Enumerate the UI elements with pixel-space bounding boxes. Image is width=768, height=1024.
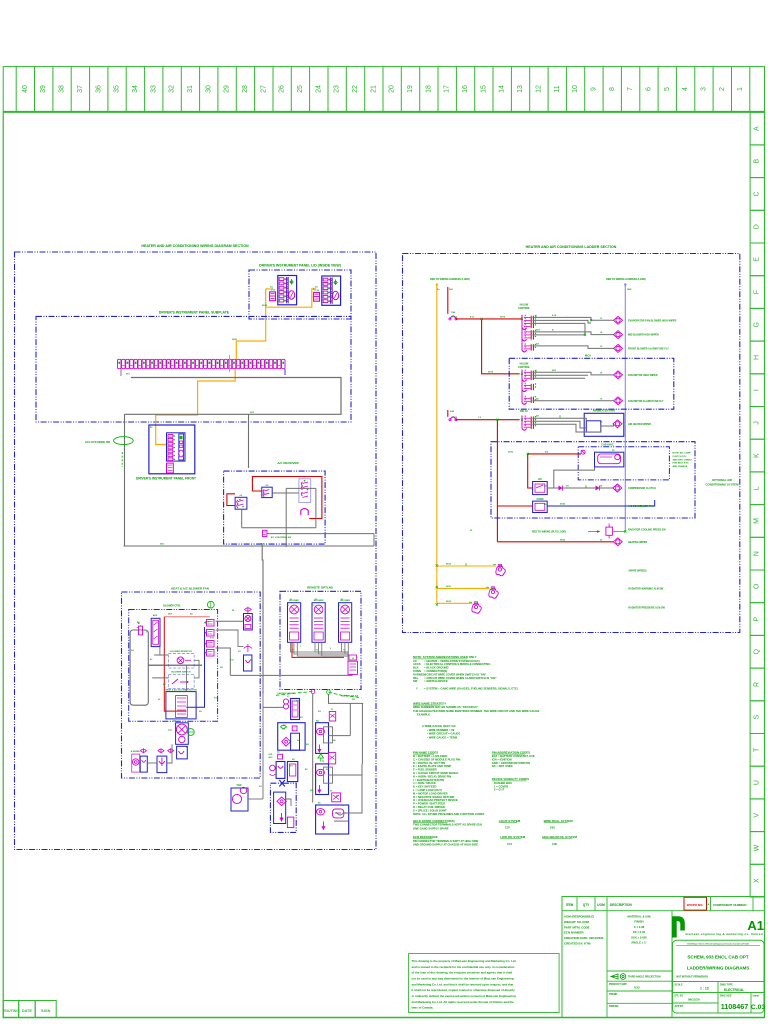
svg-text:P: P <box>754 616 761 621</box>
title block outer <box>562 897 765 1018</box>
svg-text:• WIRE GAUGE = TERM: • WIRE GAUGE = TERM <box>427 735 458 739</box>
relay box RA <box>316 723 329 754</box>
svg-text:RADIATOR COOLING PRESS SW: RADIATOR COOLING PRESS SW <box>628 529 666 532</box>
svg-text:= CIRCUIT WIRE COVER WHEN ALA: = CIRCUIT WIRE COVER WHEN ALARM SWITCH I… <box>424 676 497 680</box>
connector J2 front panel block <box>167 433 186 461</box>
wire: vertical trunks <box>248 546 250 560</box>
svg-text:CAB HVAC: CAB HVAC <box>601 444 614 447</box>
breaker CB2 <box>450 417 456 420</box>
svg-text:09/24: 09/24 <box>560 503 566 506</box>
svg-text:G: G <box>754 322 761 327</box>
svg-text:AIR HEATER WIPER: AIR HEATER WIPER <box>628 423 651 426</box>
svg-text:= CONNECTOR(S): = CONNECTOR(S) <box>424 669 447 673</box>
svg-text:SCALE: SCALE <box>675 983 684 986</box>
wire: red receiver loop <box>252 477 322 519</box>
connector CX2 <box>329 753 336 764</box>
cab HVAC sub box <box>578 447 669 480</box>
svg-text:10: 10 <box>572 85 579 93</box>
svg-text:AUX: AUX <box>153 614 158 617</box>
heater blower assembly outer box <box>122 592 261 778</box>
svg-text:AND GROUND SUPPLY AT CHASSIS A: AND GROUND SUPPLY AT CHASSIS AT HIGH SID… <box>413 843 478 847</box>
right column: connector CX1 <box>329 712 335 722</box>
svg-text:C: C <box>754 191 761 196</box>
wire: relay common bar <box>521 319 523 346</box>
ruler numbers 40..1 <box>22 85 744 93</box>
svg-text:R: R <box>754 682 761 687</box>
wire: grey jog to relay2 <box>578 478 580 488</box>
svg-text:DEVICE VISIBILITY CODES: DEVICE VISIBILITY CODES <box>492 777 529 781</box>
relay RL3 <box>521 343 523 350</box>
svg-text:LADDER/WIRING DIAGRAMS: LADDER/WIRING DIAGRAMS <box>687 966 750 971</box>
svg-text:CREATED BY: KTM: CREATED BY: KTM <box>564 942 591 946</box>
svg-text:FINISH: FINISH <box>634 920 643 924</box>
svg-text:and Marketing Co. Ltd. All: and Marketing Co. Ltd. All rights reserv… <box>412 1000 515 1004</box>
wire: red remote feed <box>292 642 344 657</box>
svg-text:09/17: 09/17 <box>452 317 458 319</box>
svg-text:SEE DWG 1108467: SEE DWG 1108467 <box>673 458 693 461</box>
title block left info column <box>606 911 608 1018</box>
svg-text:F: F <box>754 290 761 294</box>
svg-text:0/2: 0/2 <box>300 717 303 719</box>
wire: orange harness in lid box <box>266 288 271 290</box>
svg-text:30: 30 <box>205 85 212 93</box>
svg-text:3: 3 <box>701 87 708 91</box>
svg-text:FAN: FAN <box>237 784 242 787</box>
wire: red rung feed 1 <box>456 318 522 320</box>
wire: red heater bottom rung <box>497 541 613 543</box>
svg-text:31: 31 <box>187 85 194 93</box>
svg-text:WIRE NUMBERS MAY BE SHOWN AS ": WIRE NUMBERS MAY BE SHOWN AS "XXX/XX/XX" <box>413 705 479 709</box>
aux fan component AF1 <box>244 614 253 631</box>
relay K1 <box>235 497 247 509</box>
svg-text:09/32: 09/32 <box>446 601 452 603</box>
svg-text:11: 11 <box>554 85 561 92</box>
relay K3 tall <box>151 618 160 646</box>
svg-text:RELAY: RELAY <box>520 410 528 413</box>
spare connector SP2 <box>489 588 498 598</box>
svg-text:K: K <box>754 453 761 458</box>
svg-text:09/22: 09/22 <box>508 451 514 453</box>
svg-text:HEATER AND AIR CONDITIONING LA: HEATER AND AIR CONDITIONING LADDER SECTI… <box>526 245 617 249</box>
motor M12 <box>614 344 623 352</box>
svg-text:22: 22 <box>352 85 359 93</box>
svg-text:FRONT BLOWER ALARM FUSE FLY: FRONT BLOWER ALARM FUSE FLY <box>628 347 669 350</box>
fan unit FU1 <box>288 603 301 643</box>
svg-text:DTL BY: DTL BY <box>675 994 684 997</box>
svg-text:PRODUCT GRP: PRODUCT GRP <box>609 983 627 986</box>
svg-text:= HEATER – VENTILATION SYSTEM: = HEATER – VENTILATION SYSTEM (HVAC) <box>424 659 480 663</box>
terminal strip TB1 <box>118 359 122 368</box>
wire: rung group2 <box>532 372 613 375</box>
svg-text:TYP: TYP <box>168 730 173 732</box>
twin circle glyph <box>283 699 288 704</box>
horn H1 <box>132 754 140 772</box>
svg-text:A2: A2 <box>544 485 546 488</box>
svg-text:B = BATTERY + LIVE FEED: B = BATTERY + LIVE FEED <box>413 754 447 758</box>
svg-text:REL: REL <box>413 676 419 680</box>
svg-text:RED TO WIRING HARNESS (LADD): RED TO WIRING HARNESS (LADD) <box>606 278 646 281</box>
svg-text:L: L <box>754 486 761 490</box>
svg-text:DWG TYPE: DWG TYPE <box>720 983 733 986</box>
svg-text:W: W <box>754 844 761 851</box>
svg-text:DRIVER'S INSTRUMENT PANEL LID: DRIVER'S INSTRUMENT PANEL LID (INSIDE VI… <box>259 264 341 268</box>
svg-text:20: 20 <box>389 85 396 93</box>
wire: red feed loop <box>164 616 210 618</box>
relay RL4 <box>521 370 523 380</box>
svg-text:E30: E30 <box>550 826 555 830</box>
svg-text:MATERIAL & U/M: MATERIAL & U/M <box>628 915 652 919</box>
title block tolerance column <box>671 911 673 1018</box>
WO/PO NO red cell <box>684 897 707 910</box>
svg-text:ECN REFERENCE: ECN REFERENCE <box>413 835 438 839</box>
svg-text:This drawing is the proper: This drawing is the property of MacLean … <box>412 959 517 963</box>
wire: red compressor feed <box>528 453 581 455</box>
svg-text:COMPONENT NUMBER: COMPONENT NUMBER <box>713 903 747 907</box>
svg-text:33: 33 <box>150 85 157 93</box>
wire: green tick at strip <box>229 355 231 372</box>
svg-text:09/40: 09/40 <box>262 304 268 307</box>
wire: light blue return vertical <box>624 283 626 532</box>
bottom dashed box DL1 <box>270 783 296 832</box>
svg-text:SIGN: SIGN <box>41 1009 51 1013</box>
motor M15 <box>613 420 622 428</box>
relay RL6 <box>521 396 523 403</box>
border frame: left edge <box>2 112 4 1017</box>
fan unit FU2 <box>312 603 325 643</box>
relay RL1 <box>521 315 523 328</box>
svg-text:ACCS: ACCS <box>413 662 421 666</box>
driver's instrument panel front box <box>149 425 195 474</box>
svg-text:NOTE: A/C COMP: NOTE: A/C COMP <box>673 452 692 455</box>
svg-text:CAB DIST SPLICE: CAB DIST SPLICE <box>341 695 359 698</box>
svg-text:09/11/20: 09/11/20 <box>688 998 700 1002</box>
svg-text:RED TO WIRING (PLTS LADD): RED TO WIRING (PLTS LADD) <box>532 531 566 534</box>
motor M17: heating <box>613 538 622 546</box>
svg-text:U33: U33 <box>634 986 640 990</box>
svg-text:14: 14 <box>499 85 506 93</box>
condensate pump M2 <box>177 746 188 759</box>
svg-text:K = KEY SW FEED: K = KEY SW FEED <box>413 785 437 789</box>
wire tick <box>271 288 273 290</box>
relay RL7 <box>521 416 523 429</box>
svg-text:15A: 15A <box>451 311 455 314</box>
compressor arc glyph <box>301 509 308 516</box>
svg-text:0/7: 0/7 <box>597 411 600 413</box>
svg-text:1500 Major Street, R.R.#2 Coll: 1500 Major Street, R.R.#2 Collingwood On… <box>687 942 749 945</box>
svg-text:not be used in any way d: not be used in any way detrimental to th… <box>412 976 514 980</box>
svg-text:GND: GND <box>627 289 632 291</box>
svg-text:12: 12 <box>535 85 542 93</box>
module box ML2 <box>278 723 305 751</box>
svg-text:• WIRE NUMBER = 09: • WIRE NUMBER = 09 <box>427 728 455 732</box>
svg-text:6: 6 <box>646 87 653 91</box>
svg-text:T2: T2 <box>322 761 324 763</box>
wiring diagram section outer box <box>15 252 377 850</box>
svg-text:SW: SW <box>413 679 418 683</box>
svg-text:09/20: 09/20 <box>452 417 458 419</box>
svg-text:BLOWER CTRL: BLOWER CTRL <box>163 605 181 608</box>
svg-text:CREATION DATE: 09/11/2020: CREATION DATE: 09/11/2020 <box>564 936 604 940</box>
breaker CB1 <box>450 316 456 319</box>
svg-text:9: 9 <box>590 87 597 91</box>
disclaimer text box <box>409 954 559 1013</box>
svg-text:8: 8 <box>609 87 616 91</box>
svg-text:20A: 20A <box>450 410 454 413</box>
svg-text:HELD SPARE CONNECTOR(S): HELD SPARE CONNECTOR(S) <box>413 819 455 823</box>
svg-text:2 = CUT: 2 = CUT <box>494 788 504 792</box>
svg-text:5: 5 <box>664 87 671 91</box>
relay RL5 <box>521 383 523 390</box>
product grp row <box>607 980 672 982</box>
svg-text:GND = GROUND RETURN PIN: GND = GROUND RETURN PIN <box>492 761 530 765</box>
svg-text:PIN NAME CODES: PIN NAME CODES <box>413 750 438 754</box>
svg-text:WIRE DUAL SYSTEM: WIRE DUAL SYSTEM <box>544 819 574 823</box>
wire: red relay feed low <box>497 505 532 507</box>
svg-text:ITEM: ITEM <box>566 903 574 907</box>
svg-text:= CIRCUIT WIRE COVER WHEN SWI: = CIRCUIT WIRE COVER WHEN SWITCH IS "ON" <box>424 672 487 676</box>
svg-text:P1: P1 <box>186 747 188 749</box>
svg-text:and Marketing Co. Ltd. and: and Marketing Co. Ltd. and that it shall… <box>412 982 514 986</box>
svg-text:EXAMPLE: EXAMPLE <box>417 713 430 717</box>
svg-text:X3: X3 <box>330 791 332 793</box>
svg-text:X1: X1 <box>331 709 333 711</box>
relay RL2 <box>521 329 523 339</box>
svg-text:• WIRE CIRCUIT = GAUGE: • WIRE CIRCUIT = GAUGE <box>427 732 460 736</box>
svg-text:XX ± 0.05: XX ± 0.05 <box>633 930 646 934</box>
air heater unit box <box>584 413 624 436</box>
wire: grey fan bundle 3 <box>342 642 349 652</box>
svg-text:25: 25 <box>297 85 304 93</box>
switch S1: acc heater mode switch ellipse <box>114 437 134 445</box>
svg-text:J1: J1 <box>287 696 289 698</box>
svg-text:APP BY: APP BY <box>675 1005 684 1008</box>
aux pump component AF2 <box>244 644 252 652</box>
svg-text:WIRE NAME STRATEGY: WIRE NAME STRATEGY <box>413 701 446 705</box>
svg-text:0/9: 0/9 <box>341 805 344 807</box>
svg-text:H = HORN / RELAY DRIVE PIN: H = HORN / RELAY DRIVE PIN <box>413 774 451 778</box>
svg-text:0/6: 0/6 <box>163 684 166 686</box>
wire: orange spare 3 <box>437 602 473 604</box>
box BL3 <box>276 762 285 779</box>
svg-text:XXX ± 0.005: XXX ± 0.005 <box>631 935 647 939</box>
connector sq CQ1 <box>278 754 283 759</box>
ground symbol G1 <box>187 729 194 736</box>
wire: green dashed distribution <box>276 692 313 696</box>
relay box RB <box>316 764 329 795</box>
svg-text:21: 21 <box>370 85 377 93</box>
svg-text:N = NEGATIVE SIGNAL RETURN: N = NEGATIVE SIGNAL RETURN <box>413 795 454 799</box>
border frame: ruler bottom heavy line <box>3 111 764 113</box>
svg-text:CAB DIST SPLICE: CAB DIST SPLICE <box>277 692 295 695</box>
svg-text:15: 15 <box>480 85 487 93</box>
svg-text:NOT WITHOUT PERMISSION: NOT WITHOUT PERMISSION <box>677 977 709 979</box>
svg-text:09/31: 09/31 <box>446 586 452 588</box>
driver's instrument panel lid (inside view) box <box>249 270 351 319</box>
wire: compressor clutch rung <box>547 487 613 489</box>
wire: orange supply vertical <box>436 283 438 603</box>
wire: right mesh <box>329 735 351 737</box>
svg-text:F2: F2 <box>315 599 317 601</box>
svg-text:T: T <box>754 747 761 752</box>
svg-text:of the loan of this drawi: of the loan of this drawing, the recipie… <box>412 971 513 975</box>
svg-text:A WIRE GAUGE 09/17/ 0 B:: A WIRE GAUGE 09/17/ 0 B: <box>422 724 456 728</box>
svg-text:X ± 0.08: X ± 0.08 <box>634 925 645 929</box>
svg-text:A/C: A/C <box>538 478 542 481</box>
svg-text:O: O <box>754 583 761 589</box>
svg-text:maclean engineering & marke: maclean engineering & marketing co. limi… <box>686 932 763 936</box>
svg-text:40: 40 <box>22 85 29 93</box>
scale row <box>673 981 765 983</box>
svg-text:NC = NOT USED: NC = NOT USED <box>492 764 513 768</box>
MCU sub box <box>509 358 674 409</box>
routing/date/sign boxes bottom-left <box>3 1001 19 1018</box>
driver's instrument panel subplate box <box>36 316 351 422</box>
arrow orange feed <box>435 284 438 288</box>
svg-text:DRIVER'S INSTRUMENT PANEL FRON: DRIVER'S INSTRUMENT PANEL FRONT <box>136 477 196 481</box>
svg-text:J: J <box>754 421 761 425</box>
svg-text:NOTE: ALL OTHER PIN NAMES ARE: NOTE: ALL OTHER PIN NAMES ARE FUNCTION C… <box>413 812 484 816</box>
svg-text:or indirectly without the: or indirectly without the expressed writ… <box>412 994 516 998</box>
svg-text:HIGH BEAM OIL SYSTEM: HIGH BEAM OIL SYSTEM <box>542 835 577 839</box>
blower connector block J5 <box>166 692 196 719</box>
svg-text:0/5: 0/5 <box>292 759 295 761</box>
border frame: bottom edge <box>3 1017 765 1019</box>
ground glyph G2 <box>207 601 214 608</box>
wire: orange spare 2 <box>437 587 490 589</box>
wire: rung group1 <box>532 317 613 320</box>
svg-text:TWO CONNECTOR TERMINALS KEPT A: TWO CONNECTOR TERMINALS KEPT AS SPARE (E… <box>413 823 482 827</box>
svg-text:09/41: 09/41 <box>232 338 238 341</box>
connector block CB-L1 <box>291 699 300 720</box>
svg-text:I = IGNITION KEYED PIN: I = IGNITION KEYED PIN <box>413 778 444 782</box>
svg-text:BLK: BLK <box>413 666 419 670</box>
fan bow glyphs above horns <box>140 749 146 752</box>
svg-text:F5: F5 <box>470 530 472 532</box>
svg-text:35: 35 <box>114 85 121 93</box>
svg-text:37: 37 <box>77 85 84 93</box>
svg-text:SHEET: SHEET <box>753 995 761 997</box>
fan bow glyph <box>245 608 252 611</box>
svg-text:C74: C74 <box>507 842 512 846</box>
svg-text:DATE: DATE <box>22 1009 33 1013</box>
pressure switch PS1 <box>581 450 585 454</box>
svg-text:A: A <box>754 126 761 131</box>
svg-text:= BLACK GROUND: = BLACK GROUND <box>424 666 448 670</box>
svg-text:RED TO WIRING HARNESS (LADD): RED TO WIRING HARNESS (LADD) <box>430 278 470 281</box>
svg-text:HEATER AND AIR CONDITIONING WI: HEATER AND AIR CONDITIONING WIRING DIAGR… <box>141 244 249 248</box>
svg-text:24: 24 <box>315 85 322 93</box>
svg-text:R = RELAY COIL DRIVER: R = RELAY COIL DRIVER <box>413 805 445 809</box>
svg-text:AC: AC <box>413 659 417 663</box>
svg-text:U: U <box>754 780 761 785</box>
svg-text:30A: 30A <box>449 288 453 291</box>
svg-text:DWG SIZE: DWG SIZE <box>720 995 732 997</box>
wire: green switch lead <box>121 452 123 467</box>
svg-text:F1: F1 <box>290 599 292 601</box>
connector cluster P2 <box>322 276 341 305</box>
maclean logo <box>672 916 685 937</box>
svg-text:36: 36 <box>95 85 102 93</box>
svg-text:B3: B3 <box>305 769 307 771</box>
svg-text:A1: A1 <box>150 658 152 661</box>
svg-text:C57: C57 <box>505 826 510 830</box>
ladder section outer box <box>403 254 740 633</box>
svg-text:IGN = IGNITION: IGN = IGNITION <box>492 757 512 761</box>
svg-text:ELECTRICAL: ELECTRICAL <box>724 988 744 992</box>
svg-text:CONDITIONING SYSTEM: CONDITIONING SYSTEM <box>706 483 740 487</box>
svg-text:OPTIONAL AIR: OPTIONAL AIR <box>712 478 732 482</box>
svg-text:MID BLOWER HIGH WIPER: MID BLOWER HIGH WIPER <box>628 334 659 337</box>
svg-text:D = DIGITAL IN / OUT PIN: D = DIGITAL IN / OUT PIN <box>413 761 445 765</box>
svg-text:N: N <box>754 551 761 556</box>
svg-text:REMOTE OPTLNS: REMOTE OPTLNS <box>307 586 333 590</box>
svg-text:TREND: TREND <box>609 993 618 996</box>
wire: blue condenser rung <box>547 500 655 506</box>
wire: blue inner frame <box>186 627 204 707</box>
wide module box RC <box>316 805 349 834</box>
diode D2 <box>559 486 563 491</box>
svg-text:23: 23 <box>334 85 341 93</box>
wire: orange feed through subplate <box>236 326 265 359</box>
switch box <box>168 674 194 688</box>
svg-text:= SYSTEM – GANG WIRE (GAUGES,: = SYSTEM – GANG WIRE (GAUGES, FUELING SE… <box>424 687 518 691</box>
svg-text:A/C CONDENSER FAN: A/C CONDENSER FAN <box>628 505 654 508</box>
relay K2 <box>262 487 272 497</box>
svg-text:X: X <box>754 878 761 883</box>
svg-text:DESCRIPTION: DESCRIPTION <box>610 903 632 907</box>
svg-text:DASHED BOX: DASHED BOX <box>494 781 512 785</box>
svg-text:17: 17 <box>444 85 451 93</box>
svg-text:L = LAMP LOAD (OUT): L = LAMP LOAD (OUT) <box>413 788 442 792</box>
svg-text:Y: Y <box>416 687 418 691</box>
fan unit FU3 <box>339 603 352 643</box>
optional air conditioning box <box>491 442 695 518</box>
svg-text:THE HIGHLIGHTED WIRE NAME: THE HIGHLIGHTED WIRE NAME IDENTIFIES NUM… <box>413 709 540 713</box>
border frame: top ruler strip <box>3 67 764 113</box>
svg-text:WO/PO NO.: WO/PO NO. <box>687 903 704 907</box>
green tree glyph <box>318 754 324 758</box>
fan glyph FR <box>177 657 184 664</box>
svg-text:A3: A3 <box>544 503 546 506</box>
resistor pack box <box>168 654 194 669</box>
spare connector SP3 <box>472 603 481 613</box>
svg-text:ACC HTR MODE SW: ACC HTR MODE SW <box>85 440 111 444</box>
svg-text:A/C LOW PRESS SW: A/C LOW PRESS SW <box>271 536 292 539</box>
wire tick <box>313 288 315 290</box>
svg-text:HEAT & A/C BLOWER MOTOR: HEAT & A/C BLOWER MOTOR <box>165 688 197 691</box>
motor M10 <box>614 316 623 324</box>
relay K9 light box <box>299 479 311 503</box>
wire: grey main loop to lower assembly <box>124 545 375 547</box>
svg-text:LIGHT SYSTEM: LIGHT SYSTEM <box>499 819 521 823</box>
svg-text:FAN MOTOR HIGH WIPER: FAN MOTOR HIGH WIPER <box>628 374 658 377</box>
A/C receiver sub box <box>224 471 326 544</box>
svg-text:WEIGHT: KG UOM: WEIGHT: KG UOM <box>564 920 589 924</box>
svg-text:DRIVER'S INSTRUMENT PANEL SUBP: DRIVER'S INSTRUMENT PANEL SUBPLATE <box>159 311 230 315</box>
svg-text:S: S <box>754 715 761 720</box>
svg-text:HEATING WIPER: HEATING WIPER <box>628 541 647 544</box>
svg-text:0/8: 0/8 <box>220 667 223 669</box>
svg-text:4: 4 <box>682 87 689 91</box>
svg-text:ROUTING: ROUTING <box>3 1009 19 1013</box>
wire: grey trunks <box>312 694 314 803</box>
svg-text:BLOWER SWITCH: BLOWER SWITCH <box>172 672 191 674</box>
wire: red rung feed 2 <box>456 419 520 421</box>
svg-text:CONN: CONN <box>413 669 421 673</box>
wire: grey mesh <box>154 654 168 656</box>
svg-text:HEAT & A/C BLOWER FAN: HEAT & A/C BLOWER FAN <box>171 587 209 591</box>
svg-text:A1: A1 <box>747 918 764 933</box>
